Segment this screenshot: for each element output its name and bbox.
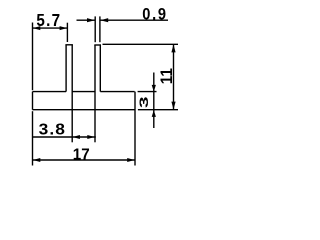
svg-text:11: 11 <box>159 68 177 84</box>
svg-text:3: 3 <box>137 96 151 108</box>
svg-text:0.9: 0.9 <box>142 5 167 23</box>
svg-text:17: 17 <box>73 146 90 163</box>
svg-text:3.8: 3.8 <box>39 122 66 139</box>
svg-text:5.7: 5.7 <box>36 11 61 30</box>
